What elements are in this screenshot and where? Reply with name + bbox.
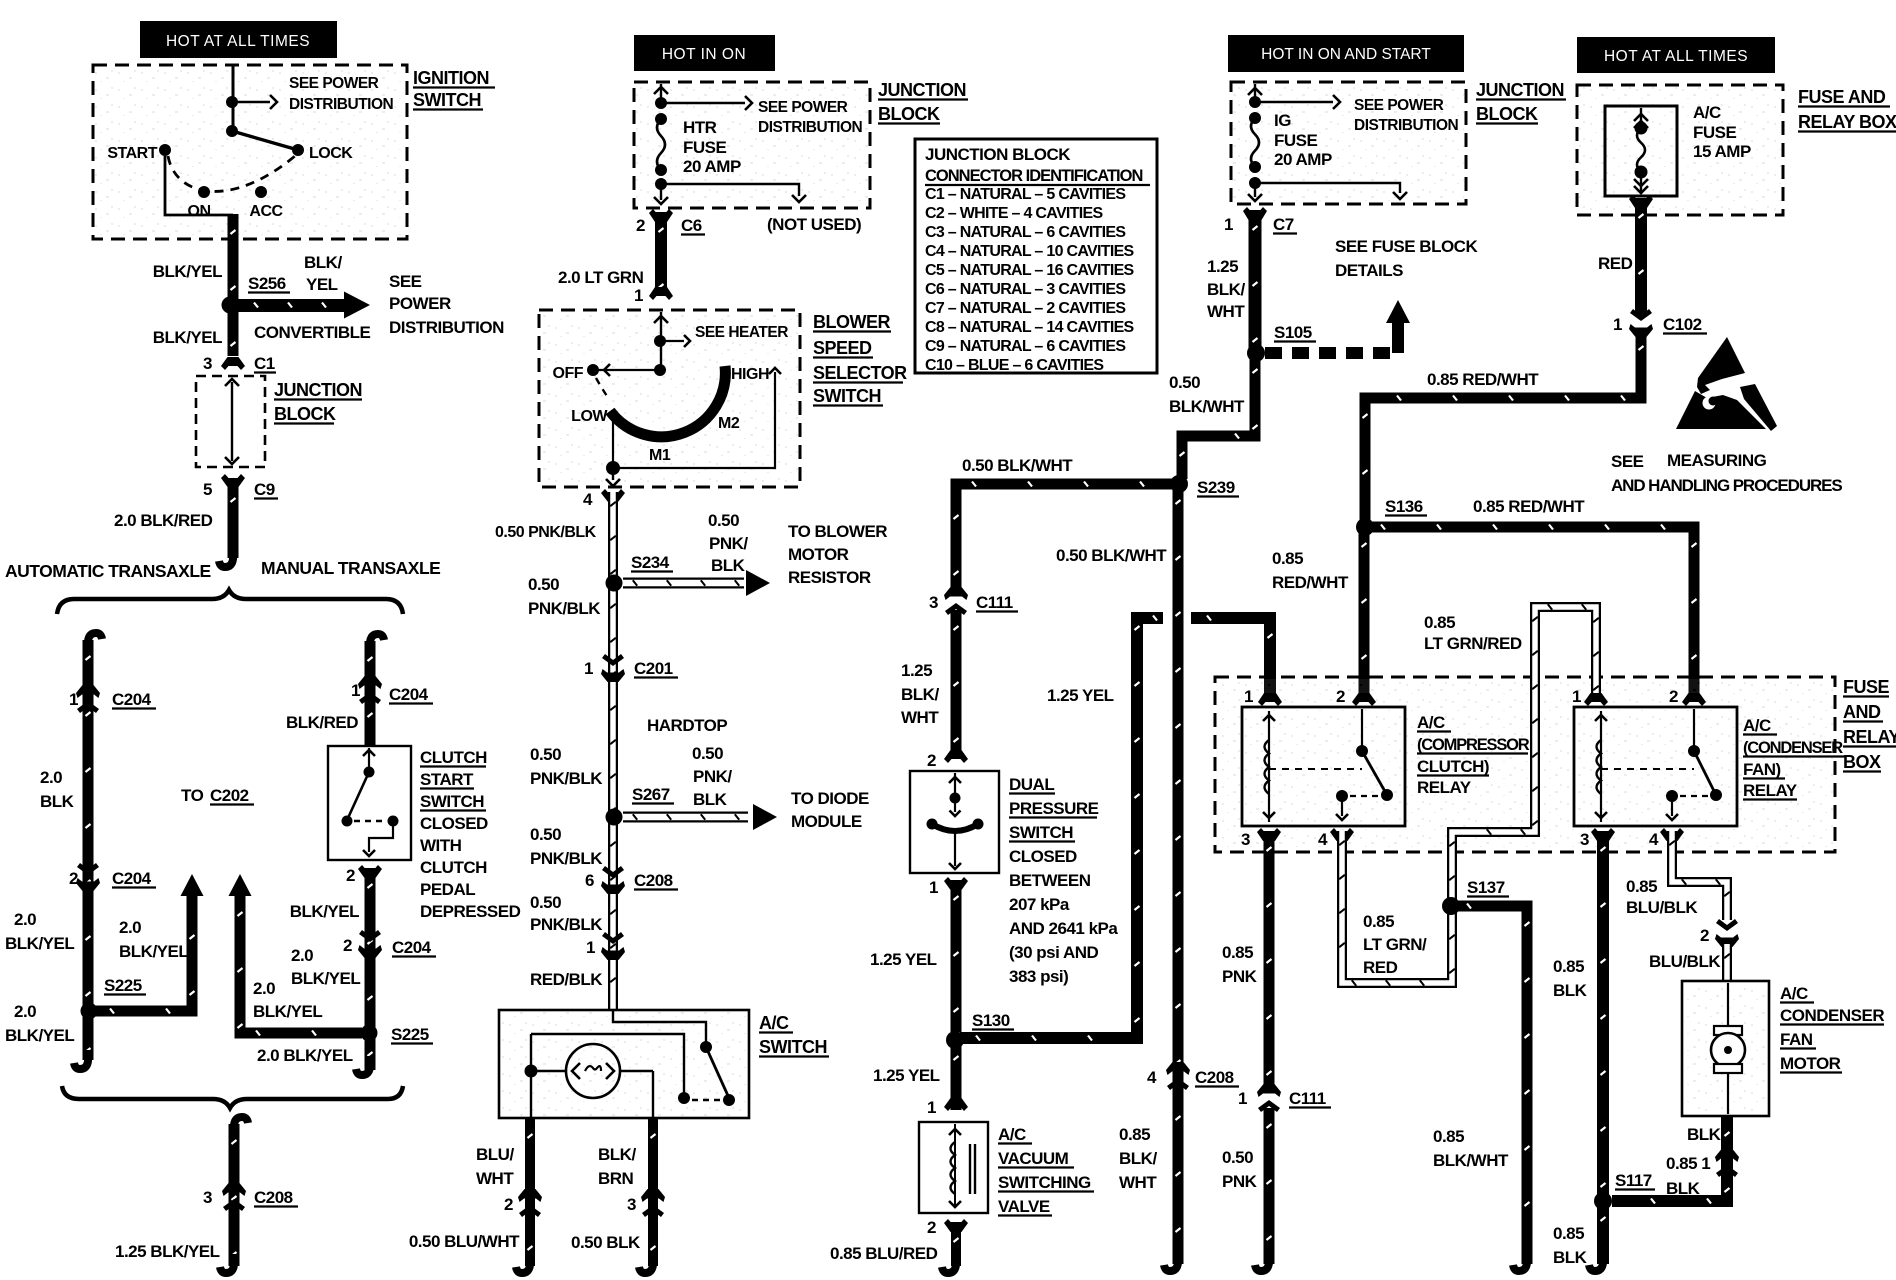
wire BLK motor ground [1612, 1116, 1727, 1201]
svg-text:1: 1 [1238, 1089, 1247, 1108]
condenser relay switch contacts [1693, 709, 1695, 748]
svg-text:C9 – NATURAL – 6 CAVITIES: C9 – NATURAL – 6 CAVITIES [925, 338, 1126, 355]
svg-text:AND HANDLING PROCEDURES: AND HANDLING PROCEDURES [1611, 476, 1842, 495]
svg-text:BLK: BLK [1553, 1248, 1588, 1267]
header HOT IN ON [634, 35, 775, 71]
fuse and relay box dashed (relays) [1217, 679, 1833, 850]
svg-text:RESISTOR: RESISTOR [788, 568, 871, 587]
arrow to blower motor resistor [623, 578, 744, 589]
svg-text:0.85: 0.85 [1553, 1224, 1584, 1243]
svg-text:PNK/BLK: PNK/BLK [528, 599, 601, 618]
wire see power distribution tap [232, 101, 270, 104]
svg-text:DISTRIBUTION: DISTRIBUTION [289, 96, 394, 113]
svg-text:SEE: SEE [1611, 452, 1644, 471]
blower switch wiper feed [660, 312, 662, 370]
svg-text:0.85: 0.85 [1424, 613, 1455, 632]
node ignition rotor pivot [226, 125, 238, 137]
svg-text:4: 4 [1147, 1068, 1157, 1087]
wire 2.0 BLK/RED [228, 482, 239, 558]
svg-text:2: 2 [346, 866, 355, 885]
svg-text:2: 2 [1700, 926, 1709, 945]
svg-text:WHT: WHT [476, 1169, 514, 1188]
svg-text:S137: S137 [1467, 878, 1505, 897]
svg-text:CLUTCH: CLUTCH [420, 858, 487, 877]
svg-text:4: 4 [583, 490, 593, 509]
wire BLK/YEL ignition output [228, 214, 239, 356]
svg-text:CLUTCH: CLUTCH [420, 748, 487, 767]
svg-text:S256: S256 [248, 274, 286, 293]
svg-text:WHT: WHT [1119, 1173, 1157, 1192]
svg-text:2.0: 2.0 [14, 910, 36, 929]
dual pressure switch box [910, 771, 999, 873]
svg-text:1.25 YEL: 1.25 YEL [870, 950, 937, 969]
svg-text:2.0 BLK/YEL: 2.0 BLK/YEL [257, 1046, 353, 1065]
svg-text:PNK/BLK: PNK/BLK [530, 849, 603, 868]
svg-text:0.85: 0.85 [1119, 1125, 1150, 1144]
condenser relay internal dashed link [1601, 768, 1694, 770]
junction block connector identification table [915, 139, 1157, 373]
svg-text:1.25 YEL: 1.25 YEL [1047, 686, 1114, 705]
svg-text:0.85: 0.85 [1553, 957, 1584, 976]
svg-text:HARDTOP: HARDTOP [647, 716, 727, 735]
junction block through-wire double arrow [231, 382, 233, 461]
wire 0.50 BLK/WHT horizontal to S239 [956, 484, 1174, 591]
wire 2.0 BLK automatic transaxle [88, 633, 102, 652]
svg-text:1: 1 [586, 938, 595, 957]
svg-text:0.50: 0.50 [1169, 373, 1200, 392]
wire 0.85 LT GRN/RED condenser relay pin 1 to S137 [1452, 607, 1596, 902]
svg-text:WHT: WHT [1207, 302, 1245, 321]
svg-text:C208: C208 [1195, 1068, 1234, 1087]
svg-text:4: 4 [1318, 830, 1328, 849]
svg-text:(NOT USED): (NOT USED) [767, 215, 861, 234]
wire S225 branch up-arrow 1 [94, 896, 192, 1011]
svg-text:BLK: BLK [40, 792, 75, 811]
svg-text:BLK/YEL: BLK/YEL [291, 969, 360, 988]
svg-text:3: 3 [1580, 830, 1589, 849]
wire rotor to LOCK [232, 131, 298, 150]
svg-text:FUSE: FUSE [1274, 131, 1318, 150]
ignition switch dashed box [95, 67, 405, 237]
svg-text:PNK/BLK: PNK/BLK [530, 915, 603, 934]
A/C switch internal wiring [613, 1010, 706, 1043]
blower output node [606, 461, 620, 475]
wire RED from A/C fuse [1635, 198, 1647, 316]
wire 0.50 PNK to bottom [1264, 1108, 1275, 1264]
condenser relay coil [1600, 711, 1602, 822]
wire 0.85 BLU/RED [951, 1222, 961, 1266]
svg-text:0.85 RED/WHT: 0.85 RED/WHT [1473, 497, 1585, 516]
svg-text:S239: S239 [1197, 478, 1235, 497]
svg-text:5: 5 [203, 480, 212, 499]
svg-text:0.50: 0.50 [692, 744, 723, 763]
dual pressure switch internals [954, 773, 956, 795]
svg-text:RELAY: RELAY [1843, 727, 1896, 747]
header HOT IN ON AND START [1228, 35, 1464, 72]
svg-text:A/C: A/C [1780, 984, 1808, 1003]
svg-text:DEPRESSED: DEPRESSED [420, 902, 521, 921]
svg-text:CLOSED: CLOSED [1009, 847, 1077, 866]
svg-text:0.50 PNK/BLK: 0.50 PNK/BLK [495, 524, 597, 541]
svg-text:M1: M1 [649, 447, 671, 464]
svg-text:BLK/RED: BLK/RED [286, 713, 358, 732]
svg-text:RED/WHT: RED/WHT [1272, 573, 1349, 592]
svg-text:MANUAL TRANSAXLE: MANUAL TRANSAXLE [261, 558, 440, 578]
svg-text:C7 – NATURAL – 2 CAVITIES: C7 – NATURAL – 2 CAVITIES [925, 300, 1126, 317]
svg-text:M2: M2 [718, 415, 740, 432]
svg-text:(CONDENSER: (CONDENSER [1743, 739, 1843, 757]
svg-text:A/C: A/C [1693, 103, 1721, 122]
svg-text:S117: S117 [1615, 1171, 1652, 1190]
fuse and relay box dashed (A/C fuse) [1579, 87, 1781, 213]
svg-text:1: 1 [634, 286, 643, 305]
A/C condenser fan relay box [1574, 707, 1737, 826]
compressor relay coil [1268, 711, 1270, 822]
svg-text:2.0 BLK/RED: 2.0 BLK/RED [114, 511, 213, 530]
svg-text:BLK/: BLK/ [304, 253, 342, 272]
A/C fuse inner box [1605, 106, 1677, 196]
svg-text:0.50 BLU/WHT: 0.50 BLU/WHT [409, 1232, 520, 1251]
svg-text:YEL: YEL [306, 275, 338, 294]
svg-text:PNK/BLK: PNK/BLK [530, 769, 603, 788]
wire 0.85 RED/WHT S136 to compressor relay pin 2 [1359, 527, 1370, 695]
svg-text:C8 – NATURAL – 14 CAVITIES: C8 – NATURAL – 14 CAVITIES [925, 319, 1135, 336]
svg-text:BLK/: BLK/ [1207, 280, 1245, 299]
dashed wire S105 to fuse block [1265, 347, 1390, 359]
svg-text:0.50: 0.50 [528, 575, 559, 594]
svg-text:2.0: 2.0 [119, 918, 141, 937]
svg-text:SWITCH: SWITCH [759, 1037, 827, 1057]
svg-text:TO: TO [181, 786, 204, 805]
vacuum valve internals [954, 1124, 956, 1208]
svg-text:S267: S267 [632, 785, 670, 804]
svg-text:0.85: 0.85 [1272, 549, 1303, 568]
svg-text:HOT IN ON AND START: HOT IN ON AND START [1261, 46, 1431, 63]
svg-text:0.85: 0.85 [1433, 1127, 1464, 1146]
svg-text:BLK: BLK [711, 556, 746, 575]
blower resistor arc M1-M2 [610, 366, 725, 437]
svg-text:S225: S225 [391, 1025, 429, 1044]
svg-text:BLK: BLK [1666, 1179, 1701, 1198]
svg-text:MEASURING: MEASURING [1667, 451, 1767, 470]
svg-text:SPEED: SPEED [813, 338, 872, 358]
svg-text:2: 2 [927, 1218, 936, 1237]
svg-text:C111: C111 [1289, 1089, 1326, 1108]
contact ON [198, 186, 210, 198]
wire 0.50 BLK/WHT S105 to S239 [1182, 353, 1255, 479]
svg-text:IGNITION: IGNITION [413, 68, 489, 88]
svg-text:1: 1 [929, 878, 938, 897]
svg-text:1.25 YEL: 1.25 YEL [873, 1066, 940, 1085]
svg-text:BLU/BLK: BLU/BLK [1626, 898, 1698, 917]
svg-text:SEE: SEE [389, 272, 422, 291]
svg-text:20 AMP: 20 AMP [1274, 150, 1332, 169]
svg-text:CONVERTIBLE: CONVERTIBLE [254, 323, 371, 342]
svg-text:PRESSURE: PRESSURE [1009, 799, 1099, 818]
svg-text:C2 – WHITE – 4 CAVITIES: C2 – WHITE – 4 CAVITIES [925, 205, 1103, 222]
svg-text:1.25: 1.25 [1207, 257, 1238, 276]
svg-text:PEDAL: PEDAL [420, 880, 475, 899]
svg-text:TO DIODE: TO DIODE [791, 789, 869, 808]
svg-text:WHT: WHT [901, 708, 939, 727]
svg-text:2: 2 [1336, 687, 1345, 706]
svg-text:BLK/: BLK/ [901, 685, 939, 704]
svg-text:BLK/WHT: BLK/WHT [1169, 397, 1245, 416]
svg-text:0.85 BLU/RED: 0.85 BLU/RED [830, 1244, 938, 1263]
svg-text:0.85: 0.85 [1626, 877, 1657, 896]
A/C condenser fan motor box [1684, 983, 1767, 1114]
header HOT AT ALL TIMES (right) [1577, 37, 1775, 73]
svg-text:BLK/: BLK/ [1119, 1149, 1157, 1168]
svg-text:207 kPa: 207 kPa [1009, 895, 1070, 914]
svg-text:AND 2641 kPa: AND 2641 kPa [1009, 919, 1118, 938]
svg-text:C6: C6 [681, 216, 702, 235]
svg-text:0.85: 0.85 [1363, 912, 1394, 931]
svg-text:1: 1 [1613, 315, 1622, 334]
svg-text:BRN: BRN [598, 1169, 634, 1188]
wire S225 branch up-arrow 2 (manual) [240, 896, 362, 1033]
svg-text:MODULE: MODULE [791, 812, 862, 831]
svg-text:C204: C204 [392, 938, 432, 957]
svg-text:S225: S225 [104, 976, 142, 995]
svg-text:START: START [107, 145, 157, 162]
svg-text:LOCK: LOCK [309, 145, 353, 162]
svg-text:HOT AT ALL TIMES: HOT AT ALL TIMES [1604, 48, 1748, 65]
svg-text:AND: AND [1843, 702, 1881, 722]
svg-text:PNK/: PNK/ [693, 767, 732, 786]
svg-text:BLK: BLK [1553, 981, 1588, 1000]
svg-text:CLUTCH): CLUTCH) [1417, 757, 1489, 776]
wire BLK/BRN from A/C switch [648, 1118, 658, 1266]
svg-text:0.50: 0.50 [708, 511, 739, 530]
wire 1.25 YEL S130 riser to compressor relay [960, 618, 1163, 1038]
svg-text:3: 3 [627, 1195, 636, 1214]
ignition rotor dashed arc [168, 156, 295, 191]
svg-text:WITH: WITH [420, 836, 462, 855]
svg-text:DUAL: DUAL [1009, 775, 1054, 794]
A/C compressor clutch relay box [1242, 707, 1405, 826]
svg-text:HOT AT ALL TIMES: HOT AT ALL TIMES [166, 33, 310, 50]
compressor relay switch contacts [1361, 709, 1363, 748]
svg-text:3: 3 [1241, 830, 1250, 849]
svg-text:JUNCTION BLOCK: JUNCTION BLOCK [925, 145, 1071, 164]
svg-text:C9: C9 [254, 480, 275, 499]
svg-text:A/C: A/C [1743, 716, 1771, 735]
svg-text:BLK/YEL: BLK/YEL [119, 942, 188, 961]
svg-text:VACUUM: VACUUM [998, 1149, 1069, 1168]
svg-text:2: 2 [504, 1195, 513, 1214]
wire BLU/WHT from A/C switch [525, 1118, 535, 1266]
svg-text:SWITCH: SWITCH [1009, 823, 1073, 842]
svg-text:C201: C201 [634, 659, 673, 678]
svg-text:C1 – NATURAL – 5 CAVITIES: C1 – NATURAL – 5 CAVITIES [925, 186, 1126, 203]
svg-text:C204: C204 [389, 685, 429, 704]
svg-text:15 AMP: 15 AMP [1693, 142, 1751, 161]
svg-text:HTR: HTR [683, 118, 717, 137]
svg-text:2: 2 [343, 936, 352, 955]
svg-text:BLK: BLK [693, 790, 728, 809]
svg-text:BLOCK: BLOCK [878, 104, 940, 124]
svg-text:3: 3 [203, 354, 212, 373]
svg-text:C7: C7 [1273, 215, 1294, 234]
svg-text:SELECTOR: SELECTOR [813, 363, 907, 383]
svg-text:BLK/YEL: BLK/YEL [153, 328, 222, 347]
svg-text:0.50 BLK/WHT: 0.50 BLK/WHT [1056, 546, 1167, 565]
svg-text:0.50: 0.50 [530, 893, 561, 912]
HTR fuse element [660, 84, 662, 103]
svg-text:C204: C204 [112, 690, 152, 709]
wire 0.85 RED/WHT C102 to S136 [1365, 330, 1641, 522]
svg-text:BLK/YEL: BLK/YEL [290, 902, 359, 921]
svg-text:BLOCK: BLOCK [274, 404, 336, 424]
svg-text:4: 4 [1649, 830, 1659, 849]
svg-text:A/C: A/C [998, 1125, 1026, 1144]
svg-text:SWITCH: SWITCH [813, 386, 881, 406]
wire 1.25 BLK/WHT from C7 [1249, 210, 1262, 352]
svg-text:0.85: 0.85 [1222, 943, 1253, 962]
svg-text:RED: RED [1598, 254, 1633, 273]
svg-text:MOTOR: MOTOR [1780, 1054, 1841, 1073]
blower speed selector switch dashed box [541, 312, 798, 485]
svg-text:SEE POWER: SEE POWER [289, 75, 379, 92]
svg-text:BLK: BLK [1687, 1125, 1722, 1144]
svg-text:C111: C111 [976, 593, 1013, 612]
svg-text:PNK: PNK [1222, 1172, 1258, 1191]
svg-text:C1: C1 [254, 354, 275, 373]
svg-text:SWITCH: SWITCH [420, 792, 484, 811]
svg-text:0.50: 0.50 [1222, 1148, 1253, 1167]
wire BLK/YEL clutch switch output [365, 868, 376, 1070]
wire 0.85 BLK S117 to bottom [1597, 1201, 1609, 1264]
svg-text:0.50 BLK: 0.50 BLK [571, 1233, 641, 1252]
svg-text:DISTRIBUTION: DISTRIBUTION [389, 318, 504, 337]
svg-text:DETAILS: DETAILS [1335, 261, 1403, 280]
splice S225 (manual) [361, 1025, 378, 1042]
svg-text:RELAY BOX: RELAY BOX [1798, 112, 1896, 132]
contact LOCK [292, 144, 304, 156]
wire START to output [165, 156, 233, 215]
wire 2.0 LT GRN [655, 212, 667, 295]
svg-text:CONDENSER: CONDENSER [1780, 1006, 1884, 1025]
A/C vacuum switching valve box [919, 1122, 988, 1213]
svg-text:2.0 LT GRN: 2.0 LT GRN [558, 268, 644, 287]
svg-text:FUSE: FUSE [1693, 123, 1737, 142]
svg-text:BLOWER: BLOWER [813, 312, 890, 332]
arrow BLK/YEL convertible see power distribution [238, 299, 344, 312]
svg-text:PNK/: PNK/ [709, 534, 748, 553]
junction block dashed box (HTR fuse) [636, 84, 868, 206]
svg-text:1.25 BLK/YEL: 1.25 BLK/YEL [115, 1242, 220, 1261]
svg-text:C102: C102 [1663, 315, 1702, 334]
svg-text:383 psi): 383 psi) [1009, 967, 1068, 986]
A/C switch lamp [566, 1044, 620, 1098]
svg-text:C4 – NATURAL – 10 CAVITIES: C4 – NATURAL – 10 CAVITIES [925, 243, 1135, 260]
svg-text:S136: S136 [1385, 497, 1423, 516]
A/C fuse element [1640, 108, 1642, 124]
svg-text:0.50: 0.50 [530, 745, 561, 764]
svg-text:LT GRN/: LT GRN/ [1363, 935, 1427, 954]
svg-text:BLU/BLK: BLU/BLK [1649, 952, 1721, 971]
wire 1.25 YEL below S130 [951, 1040, 962, 1110]
svg-text:ON: ON [188, 203, 211, 220]
svg-text:VALVE: VALVE [998, 1197, 1050, 1216]
svg-text:2: 2 [927, 751, 936, 770]
svg-text:3: 3 [929, 593, 938, 612]
svg-text:1: 1 [927, 1098, 936, 1117]
svg-text:BLK/YEL: BLK/YEL [253, 1002, 322, 1021]
svg-text:FUSE AND: FUSE AND [1798, 87, 1886, 107]
svg-text:2.0: 2.0 [291, 946, 313, 965]
junction block dashed box (IG fuse) [1233, 84, 1464, 202]
svg-text:BLOCK: BLOCK [1476, 104, 1538, 124]
clutch start switch contacts [368, 748, 370, 768]
svg-text:AUTOMATIC TRANSAXLE: AUTOMATIC TRANSAXLE [5, 561, 211, 581]
wire 0.85 LT GRN/RED compressor pin 4 loop to S137 [1342, 831, 1452, 983]
svg-text:C204: C204 [112, 869, 152, 888]
svg-text:OFF: OFF [553, 365, 584, 382]
svg-text:2: 2 [636, 216, 645, 235]
svg-text:S130: S130 [972, 1011, 1010, 1030]
svg-text:C208: C208 [254, 1188, 293, 1207]
wire 0.85 BLU/BLK condenser pin 4 to motor [1672, 831, 1727, 920]
wire 1.25 BLK/WHT to dual pressure switch [951, 610, 962, 753]
svg-text:0.50: 0.50 [530, 825, 561, 844]
arrow to diode module [623, 812, 748, 823]
svg-text:1: 1 [1572, 687, 1581, 706]
svg-text:2.0: 2.0 [253, 979, 275, 998]
svg-text:CLOSED: CLOSED [420, 814, 488, 833]
svg-text:1.25: 1.25 [901, 661, 932, 680]
wire IG fuse outputs [1255, 183, 1400, 193]
svg-text:RED/BLK: RED/BLK [530, 970, 603, 989]
svg-text:RELAY: RELAY [1417, 778, 1472, 797]
ESD warning symbol [1697, 337, 1745, 394]
A/C switch box [501, 1012, 747, 1116]
svg-text:A/C: A/C [1417, 713, 1445, 732]
svg-text:IG: IG [1274, 111, 1291, 130]
svg-text:JUNCTION: JUNCTION [1476, 80, 1564, 100]
svg-text:RELAY: RELAY [1743, 781, 1798, 800]
svg-text:(30 psi AND: (30 psi AND [1009, 943, 1099, 962]
svg-text:(COMPRESSOR: (COMPRESSOR [1417, 736, 1530, 754]
svg-text:DISTRIBUTION: DISTRIBUTION [758, 119, 863, 136]
svg-text:FAN): FAN) [1743, 760, 1781, 779]
contact START [159, 144, 171, 156]
svg-text:0.85 1: 0.85 1 [1666, 1154, 1710, 1173]
svg-text:0.85 RED/WHT: 0.85 RED/WHT [1427, 370, 1539, 389]
svg-text:S105: S105 [1274, 323, 1312, 342]
svg-text:JUNCTION: JUNCTION [274, 380, 362, 400]
svg-text:3: 3 [203, 1188, 212, 1207]
svg-text:TO BLOWER: TO BLOWER [788, 522, 887, 541]
svg-text:FAN: FAN [1780, 1030, 1813, 1049]
svg-text:2: 2 [69, 869, 78, 888]
svg-text:BETWEEN: BETWEEN [1009, 871, 1091, 890]
brace transaxle merge (lower) [62, 1086, 403, 1108]
svg-text:BLK/YEL: BLK/YEL [5, 934, 74, 953]
wire 0.85 BLK/WHT S137 to bottom [1451, 906, 1527, 1264]
svg-text:POWER: POWER [389, 294, 451, 313]
svg-text:DISTRIBUTION: DISTRIBUTION [1354, 117, 1459, 134]
node ignition B+ tap [226, 96, 238, 108]
svg-text:FUSE: FUSE [683, 138, 727, 157]
svg-text:A/C: A/C [759, 1013, 789, 1033]
svg-text:2.0: 2.0 [40, 768, 62, 787]
wire 0.85 RED/WHT S136 to condenser relay pin 2 [1365, 527, 1694, 695]
svg-text:C3 – NATURAL – 6 CAVITIES: C3 – NATURAL – 6 CAVITIES [925, 224, 1126, 241]
svg-text:LT GRN/RED: LT GRN/RED [1424, 634, 1522, 653]
svg-text:BLK/: BLK/ [598, 1145, 636, 1164]
